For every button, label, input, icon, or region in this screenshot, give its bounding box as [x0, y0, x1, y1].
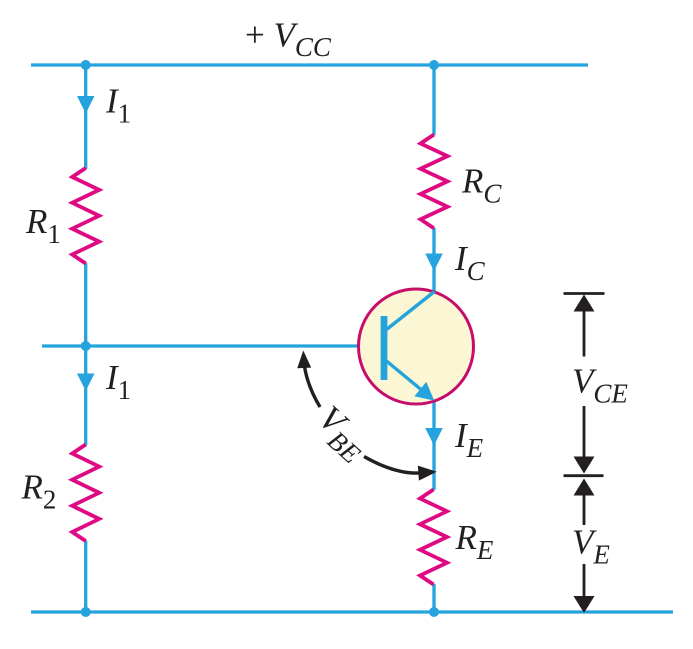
resistor RE	[420, 490, 447, 585]
wire: collector branch upper segment	[432, 65, 435, 135]
VBE arrow to base wire	[304, 358, 320, 407]
svg-text:I1: I1	[105, 82, 131, 129]
current arrow I1 lower	[77, 374, 95, 392]
current arrow I1 upper	[77, 96, 95, 114]
VBE arrow to emitter wire	[364, 457, 425, 474]
current arrow IE	[425, 428, 443, 446]
node: VCC/RC junction	[429, 60, 439, 70]
transistor Q1 body circle	[359, 289, 474, 404]
svg-text:R2: R2	[21, 468, 57, 515]
svg-text:RE: RE	[455, 518, 494, 565]
wire: emitter branch lower segment	[432, 584, 435, 612]
node: ground/RE junction	[429, 607, 439, 617]
VCE measurement top tick	[564, 292, 605, 295]
svg-text:VCE: VCE	[572, 362, 628, 409]
wire: left branch lower segment	[84, 541, 87, 613]
node: ground/R2 junction	[81, 607, 91, 617]
wire: bottom ground rail	[31, 610, 673, 613]
transistor Q1 emitter lead with arrow	[387, 361, 425, 392]
wire: collector segment to transistor	[432, 228, 435, 293]
resistor R1	[72, 168, 99, 264]
svg-text:IC: IC	[454, 239, 486, 286]
wire: left branch middle segment	[84, 263, 87, 446]
VCE up arrow	[574, 295, 595, 312]
svg-text:VE: VE	[572, 523, 610, 570]
svg-text:RC: RC	[461, 162, 502, 209]
wire: base wire to transistor	[42, 344, 382, 347]
VE down arrow	[583, 564, 586, 598]
wire: left branch upper segment	[84, 65, 87, 169]
VE up arrow	[574, 479, 595, 496]
wire: top VCC rail	[31, 63, 588, 66]
node: base divider junction	[81, 341, 91, 351]
transistor Q1 collector lead	[387, 292, 435, 330]
mid tick between VCE and VE	[564, 474, 604, 477]
resistor RC	[421, 135, 448, 229]
svg-text:I1: I1	[105, 358, 131, 405]
wire: emitter segment below transistor	[432, 400, 435, 490]
current arrow IC	[425, 254, 443, 272]
VCE down arrow	[583, 406, 586, 460]
svg-text:R1: R1	[25, 202, 61, 249]
transistor Q1 base bar	[381, 316, 388, 380]
svg-text:+ VCC: + VCC	[245, 16, 332, 63]
node: VCC/R1 junction	[81, 60, 91, 70]
resistor R2	[72, 445, 99, 542]
svg-text:IE: IE	[454, 416, 484, 463]
